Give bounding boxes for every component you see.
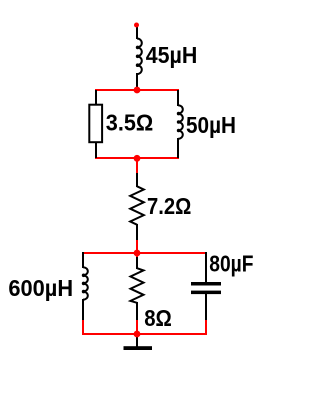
svg-text:8Ω: 8Ω [144,305,172,331]
svg-text:7.2Ω: 7.2Ω [147,193,191,219]
svg-text:45µH: 45µH [146,42,198,68]
svg-text:3.5Ω: 3.5Ω [106,110,154,136]
svg-text:50µH: 50µH [186,112,236,138]
svg-text:80µF: 80µF [209,251,253,277]
svg-text:600µH: 600µH [8,275,73,301]
